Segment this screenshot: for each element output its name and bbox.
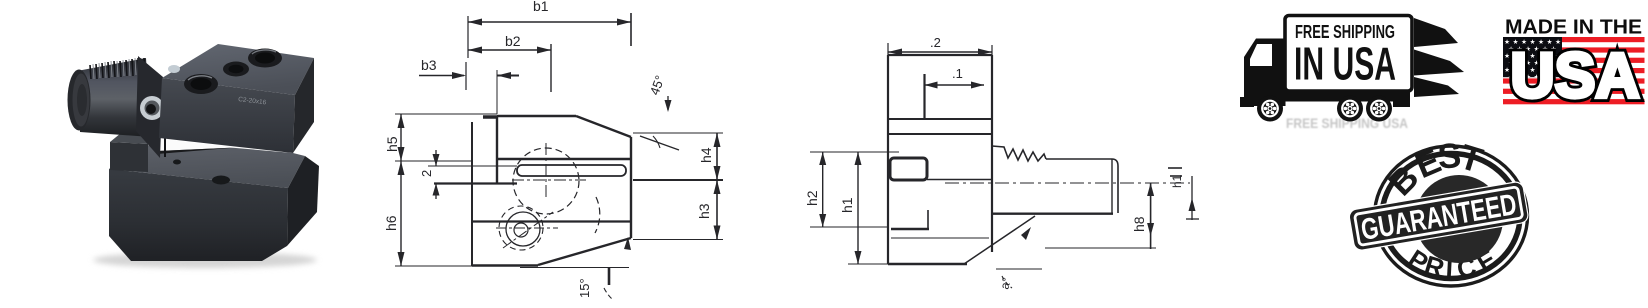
view2 slot pocket bbox=[890, 158, 927, 180]
dimension h1 bbox=[839, 152, 888, 264]
truck wheel 1 bbox=[1257, 96, 1283, 122]
view2 slot bottom line bbox=[927, 179, 992, 181]
dimension h2 bbox=[804, 152, 899, 227]
view1 slot top line bbox=[497, 158, 631, 161]
view1 right edge bbox=[630, 137, 632, 238]
shank lead-in bbox=[992, 146, 1046, 161]
svg-text:USA: USA bbox=[1511, 41, 1640, 111]
svg-text:h1: h1 bbox=[839, 197, 855, 213]
stamp PRICE text bbox=[1403, 243, 1502, 284]
shank knurling bbox=[90, 58, 145, 79]
speed stripe 1 bbox=[1414, 18, 1458, 47]
dimension 15 deg bbox=[577, 237, 631, 299]
svg-text:15°: 15° bbox=[577, 278, 592, 298]
bore dashed circle bbox=[513, 148, 579, 214]
view2 inner line B bbox=[888, 133, 992, 135]
upper block right face bbox=[293, 58, 314, 153]
view1 slot top ext line bbox=[428, 165, 517, 167]
truck box bbox=[1285, 16, 1412, 92]
dimension .1 bbox=[925, 66, 985, 119]
svg-text:h6: h6 bbox=[383, 215, 399, 231]
shank end cap bbox=[1112, 159, 1118, 213]
centerline horizontal bbox=[512, 179, 586, 181]
dimension 2 bbox=[419, 150, 440, 199]
clamp screw hole bright ring bbox=[140, 96, 164, 120]
view1 bottom chamfer bbox=[538, 238, 631, 265]
truck wheel 2 bbox=[1337, 96, 1363, 122]
top face pin bbox=[168, 65, 180, 73]
truck front step bbox=[1240, 97, 1254, 107]
dimension 45 deg bbox=[640, 73, 679, 150]
svg-text:.2: .2 bbox=[930, 35, 941, 50]
truck chassis bbox=[1285, 91, 1410, 102]
shank end cap bbox=[68, 70, 91, 131]
truck cab bbox=[1244, 39, 1286, 107]
svg-text:b1: b1 bbox=[533, 0, 549, 14]
truck rear bumper bbox=[1393, 101, 1410, 107]
clamp gap bbox=[157, 139, 236, 152]
flag stripes bbox=[1503, 37, 1645, 104]
svg-text:★: ★ bbox=[1504, 38, 1510, 46]
truck cab window bbox=[1250, 44, 1272, 66]
base step top face bbox=[109, 145, 305, 188]
svg-text:h5: h5 bbox=[384, 136, 400, 152]
shank bottom edge bbox=[992, 212, 1113, 214]
small bolt inner circle bbox=[514, 223, 528, 237]
right dashed arc bbox=[595, 197, 600, 233]
shank cylinder body bbox=[77, 58, 151, 137]
svg-text:MADE IN THE: MADE IN THE bbox=[1505, 16, 1642, 39]
view2 notch vertical bbox=[927, 210, 929, 229]
view2 right edge bbox=[991, 55, 993, 252]
view1 top-right slope bbox=[576, 116, 631, 137]
flag canton bbox=[1503, 37, 1562, 77]
block left face notch bbox=[164, 128, 166, 157]
product shadow bbox=[93, 252, 317, 268]
view1 step top line bbox=[434, 182, 517, 184]
view2 inner line C bbox=[891, 237, 989, 239]
view2 top edge bbox=[888, 54, 992, 56]
svg-text:a°: a° bbox=[997, 276, 1014, 291]
small circle cross 2 bbox=[496, 227, 558, 229]
stamp outer thin ring bbox=[1375, 146, 1528, 286]
svg-text:h3: h3 bbox=[696, 203, 712, 219]
speed stripe 3 bbox=[1414, 77, 1459, 97]
dimension b3 bbox=[419, 57, 519, 114]
shank top edge bbox=[1046, 158, 1112, 160]
dimension b1 bbox=[468, 0, 631, 58]
stamp inner disc bbox=[1415, 175, 1503, 263]
speed stripe 2 bbox=[1414, 50, 1464, 76]
top face hole 1 bbox=[184, 74, 218, 94]
view1 top edge bbox=[497, 115, 576, 117]
45 deg arc fragment bbox=[653, 136, 660, 148]
base front face bbox=[109, 169, 288, 261]
view1 top edge dark segment bbox=[483, 115, 497, 119]
view1 left edge bbox=[471, 122, 473, 266]
dimension h11 right bbox=[1168, 168, 1199, 220]
dimension .2 bbox=[888, 35, 992, 59]
dimension alpha bbox=[996, 227, 1042, 291]
svg-text:h1: h1 bbox=[1170, 174, 1184, 188]
stamp banner bbox=[1348, 181, 1529, 251]
small circle cross 1 bbox=[503, 212, 553, 248]
view2 inner line A bbox=[888, 118, 992, 120]
base step hole bbox=[212, 176, 230, 185]
base right face bbox=[287, 156, 319, 246]
view2 bottom edge bbox=[888, 263, 967, 265]
view2 left edge bbox=[887, 55, 889, 264]
view2 bottom chamfer bbox=[964, 216, 1035, 264]
svg-text:b3: b3 bbox=[421, 57, 437, 73]
svg-text:2: 2 bbox=[419, 170, 434, 177]
view2 notch step line bbox=[891, 228, 929, 230]
base small hole bbox=[173, 160, 181, 165]
svg-text:h8: h8 bbox=[1131, 216, 1147, 232]
view1 step vertical bbox=[496, 116, 498, 184]
svg-text:★: ★ bbox=[1504, 66, 1510, 74]
svg-text:45°: 45° bbox=[647, 73, 668, 97]
top face hole 2 bbox=[223, 62, 249, 77]
upper block front face bbox=[159, 78, 295, 153]
flag stars bbox=[1504, 38, 1561, 81]
svg-text:★: ★ bbox=[1504, 52, 1510, 60]
svg-text:b2: b2 bbox=[505, 33, 521, 49]
small bolt circle dashed bbox=[499, 206, 543, 250]
truck wheel 3 bbox=[1366, 96, 1392, 122]
svg-text:h4: h4 bbox=[698, 147, 714, 163]
view1 bottom edge bbox=[472, 264, 538, 266]
shank centerline bbox=[945, 182, 1190, 184]
svg-text:.1: .1 bbox=[952, 66, 963, 81]
centerline vertical bbox=[545, 143, 547, 200]
base back tab top bbox=[110, 133, 157, 144]
stamp BEST text bbox=[1381, 136, 1487, 203]
view1 bottom ext line bbox=[520, 267, 629, 269]
dimension b2 bbox=[468, 33, 551, 92]
upper block top face bbox=[162, 44, 314, 95]
dimension h5 h6 bbox=[383, 114, 497, 266]
block left face bbox=[136, 56, 163, 158]
svg-text:IN USA: IN USA bbox=[1294, 38, 1396, 90]
svg-text:h2: h2 bbox=[804, 190, 820, 206]
small bolt circle bbox=[506, 212, 540, 246]
dimension h8 bbox=[1045, 183, 1156, 249]
shank end inner line bbox=[1111, 159, 1113, 213]
dimension h4 h3 bbox=[633, 133, 723, 240]
base back tab front bbox=[110, 142, 148, 172]
top face hole 3 bbox=[248, 49, 282, 68]
stamp second ring bbox=[1382, 154, 1520, 279]
view1 slot rounded pocket bbox=[517, 165, 626, 176]
view1 base top line bbox=[471, 220, 631, 222]
